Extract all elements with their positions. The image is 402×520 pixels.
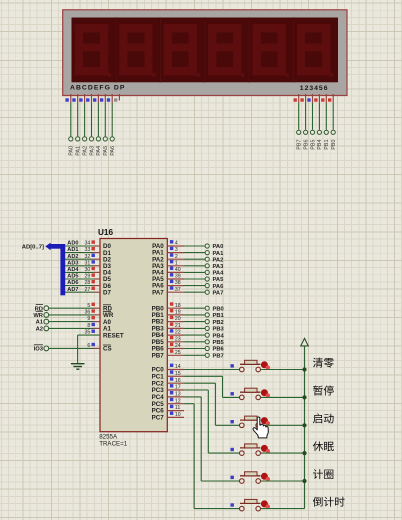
svg-text:PA7: PA7 [152,289,164,296]
svg-text:9: 9 [87,316,90,322]
svg-text:PA6: PA6 [213,284,225,290]
svg-text:PB7: PB7 [152,352,165,359]
svg-text:30: 30 [85,267,91,273]
display digit label 123456 [300,85,329,92]
svg-text:14: 14 [175,364,181,370]
wire button 2 to power rail [261,396,305,398]
svg-text:13: 13 [175,392,181,398]
junction node row 2 [302,395,306,399]
chip pin names PC0-PC7 [152,367,165,422]
bus label AD[0..7] [22,244,44,250]
svg-text:AD3: AD3 [67,260,78,266]
chip pin names D0-D7 [103,243,111,296]
svg-text:PB7: PB7 [297,140,303,150]
pin numbers PC 14,15,16,17,13,12,11,10 [175,364,181,418]
svg-text:40: 40 [175,267,181,273]
wires from display segment pins to PA terminals [71,103,112,137]
svg-text:PA0: PA0 [213,244,224,250]
svg-text:PA2: PA2 [82,146,88,156]
terminal A1 wire to chip pin A0 [36,316,112,326]
ground [71,364,85,370]
svg-text:A1: A1 [36,320,44,326]
svg-text:8: 8 [87,323,90,329]
junction node row 4 [302,451,306,455]
push button SW5 (计圈) [231,472,270,484]
junction node row 3 [302,423,306,427]
chip pin names PB0-PB7 [152,305,165,359]
wire PC4 to button 5 [184,397,240,481]
wire RESET pin 35 to ground [78,330,124,364]
chip property TRACE=1 [99,441,128,448]
svg-text:10: 10 [175,412,181,418]
chip value 8255A [99,434,118,441]
pin state squares PB [170,302,173,353]
label 清零 [313,358,334,368]
wire button 4 to power rail [261,452,305,454]
svg-text:6: 6 [87,343,90,349]
svg-text:PB0: PB0 [331,140,337,150]
terminal labels PB0-PB7 [213,306,225,359]
pin state squares D0-D7 [92,240,95,290]
chip PC0-PC7 pin stubs [167,370,184,418]
svg-text:PA1: PA1 [213,251,225,257]
svg-text:15: 15 [175,371,181,377]
junction node row 5 [302,479,306,483]
svg-text:23: 23 [175,336,181,342]
svg-text:IO3: IO3 [34,347,44,353]
svg-text:19: 19 [175,310,181,316]
svg-text:5: 5 [87,303,90,309]
svg-text:PB6: PB6 [303,140,309,150]
svg-text:PB1: PB1 [213,313,225,319]
svg-text:11: 11 [175,405,180,411]
push button SW3 (启动) [231,416,270,428]
svg-text:8255A: 8255A [99,434,118,441]
power rail wire [304,346,306,509]
wire PC3 to button 4 [184,390,240,453]
svg-text:AD4: AD4 [67,267,79,273]
svg-text:U16: U16 [98,228,113,237]
svg-text:2: 2 [175,254,178,260]
chip pin names PA0-PA7 [152,243,164,296]
svg-text:A2: A2 [36,327,43,333]
terminal RD wire to chip pin RD [35,303,113,313]
svg-text:AD5: AD5 [67,274,78,280]
svg-text:WR: WR [33,313,43,319]
svg-text:4: 4 [175,241,178,247]
terminal labels PA0-PA7 [213,244,225,296]
svg-text:3: 3 [175,247,178,253]
junction node row 1 [302,367,306,371]
pin numbers 34-27 [85,241,91,293]
svg-text:29: 29 [85,274,91,280]
label 暂停 [313,385,333,395]
label 倒计时 [313,497,345,507]
terminals PA0-PA7 right of chip [205,244,209,294]
svg-text:21: 21 [175,323,181,329]
rotated labels PB7-PB0 [297,140,338,150]
terminals PB7-PB0 below display right [297,130,336,134]
svg-text:PA7: PA7 [213,290,224,296]
svg-text:AD0: AD0 [67,241,78,247]
svg-text:PA1: PA1 [76,146,82,156]
svg-text:RESET: RESET [103,332,124,339]
terminal IO3 wire to chip pin CS [34,343,112,353]
svg-text:32: 32 [85,254,91,260]
svg-text:37: 37 [175,287,181,293]
svg-text:27: 27 [85,287,91,293]
push button SW4 (休眠) [231,444,270,456]
svg-text:PA5: PA5 [103,146,109,156]
chip PB0-PB7 pin stubs [167,308,184,355]
wires PB pins to terminals [184,308,205,355]
power terminal arrow [301,338,309,346]
display segment label ABCDEFG DP [70,85,125,92]
svg-text:1: 1 [175,260,178,266]
svg-text:AD2: AD2 [67,254,78,260]
wire button 3 to power rail [261,424,305,426]
wires AD0-AD7 from bus to chip D0-D7 [65,246,100,292]
svg-text:34: 34 [85,241,91,247]
svg-text:AD1: AD1 [67,247,78,253]
svg-text:ABCDEFG DP: ABCDEFG DP [70,85,125,92]
svg-text:33: 33 [85,247,91,253]
terminal A2 wire to chip pin A1 [36,323,112,333]
svg-text:24: 24 [175,343,181,349]
svg-text:12: 12 [175,398,181,404]
label 计圈 [313,469,333,479]
svg-text:22: 22 [175,330,181,336]
svg-text:25: 25 [175,350,181,356]
pin numbers PB 18-25 [175,303,181,356]
svg-text:PB7: PB7 [213,354,224,360]
svg-text:17: 17 [175,385,181,391]
svg-text:TRACE=1: TRACE=1 [99,441,128,448]
rotated labels PA0-PA6 [69,146,116,156]
push button SW1 (清零) [231,360,270,372]
svg-text:PB5: PB5 [213,340,225,346]
bus AD[0..7] [45,243,65,296]
svg-text:AD6: AD6 [67,280,78,286]
svg-text:28: 28 [85,280,91,286]
svg-text:PB3: PB3 [213,327,225,333]
display segment pins A-G and DP stubs [71,94,120,103]
svg-text:PA3: PA3 [213,264,225,270]
terminals PB0-PB7 right of chip [205,306,209,357]
label 启动 [313,413,334,423]
7-segment display DS1 bezel and screen [63,10,347,96]
terminals PA0-PA6 below display [69,137,115,141]
wire PC0 to button 1 [184,369,239,371]
pin state squares PA [170,240,173,290]
svg-text:38: 38 [175,280,181,286]
svg-text:AD7: AD7 [67,287,78,293]
svg-text:PB4: PB4 [317,140,323,150]
chip reference U16 [98,228,113,237]
svg-text:PA4: PA4 [213,271,225,277]
wire button 1 to power rail [261,369,305,371]
svg-text:20: 20 [175,316,181,322]
display digit-select pins 1-6 stubs [299,94,334,103]
mouse hand cursor [253,417,268,438]
chip U16 8255A body [100,239,167,432]
wire PC5 to button 6 [184,404,240,509]
svg-text:PA5: PA5 [213,277,225,283]
wires PA pins to terminals [184,246,205,292]
svg-text:36: 36 [85,310,91,316]
wires from digit pins to PB terminals [299,103,334,130]
display digit pin state squares [294,98,332,101]
svg-text:PA3: PA3 [89,146,95,156]
svg-text:16: 16 [175,378,181,384]
svg-text:CS: CS [103,346,112,353]
svg-text:123456: 123456 [300,85,329,92]
pin state squares PC [170,364,173,415]
wire PC1 to button 2 [184,376,240,397]
wire PC2 to button 3 [184,383,240,425]
label 休眠 [313,441,334,451]
svg-text:31: 31 [85,260,91,266]
wire button 5 to power rail [261,480,305,482]
svg-text:PB2: PB2 [213,320,224,326]
svg-text:35: 35 [85,330,91,336]
display segment pin state squares [65,98,117,101]
pin numbers PA 4,3,2,1,40,39,38,37 [175,241,181,293]
svg-text:PA2: PA2 [213,257,224,263]
svg-text:18: 18 [175,303,181,309]
svg-text:PB0: PB0 [213,306,224,312]
svg-text:PA6: PA6 [110,146,116,156]
svg-text:PC7: PC7 [152,415,165,422]
svg-text:PB5: PB5 [310,140,316,150]
push button SW6 (倒计时) [231,499,270,511]
svg-text:PB1: PB1 [324,140,330,150]
net labels AD0-AD7 [67,241,79,293]
terminal WR wire to chip pin WR [33,309,114,319]
display digit cells with unlit 8 segments and DP [75,18,334,83]
svg-text:D7: D7 [103,289,111,296]
svg-text:PB4: PB4 [213,333,225,339]
push button SW2 (暂停) [231,388,270,400]
svg-text:39: 39 [175,274,181,280]
svg-text:PA4: PA4 [96,146,102,156]
svg-text:AD[0..7]: AD[0..7] [22,244,44,250]
wire button 6 to power rail [261,508,305,510]
svg-text:PA0: PA0 [69,146,75,156]
svg-text:PB6: PB6 [213,347,225,353]
chip PA0-PA7 pin stubs [167,246,184,292]
